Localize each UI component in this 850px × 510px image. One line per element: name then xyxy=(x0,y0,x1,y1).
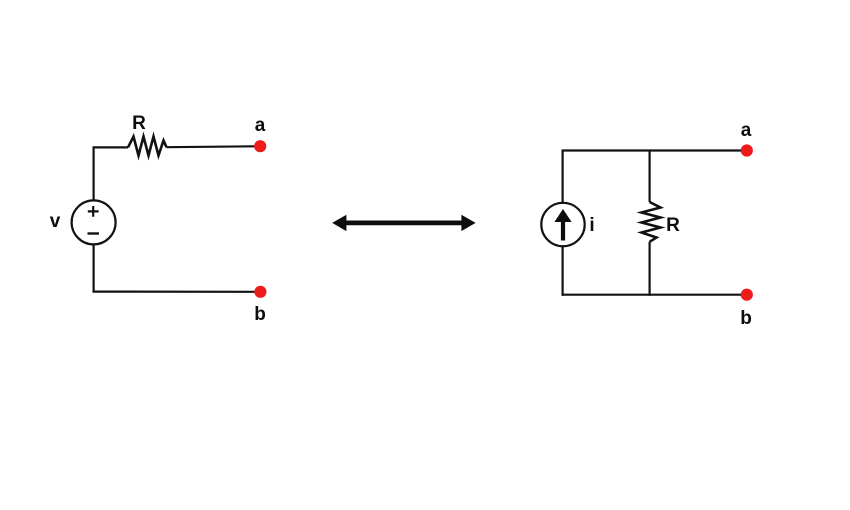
label b (left) xyxy=(254,304,266,325)
svg-text:a: a xyxy=(255,115,266,136)
wire: bottom horizontal to node b xyxy=(562,294,744,296)
resistor R (horizontal zigzag) xyxy=(128,137,167,156)
svg-text:a: a xyxy=(741,120,752,141)
wire: top horizontal to resistor xyxy=(93,146,129,148)
double-headed arrow xyxy=(332,215,475,231)
svg-text:v: v xyxy=(50,211,61,232)
svg-text:b: b xyxy=(740,308,752,329)
current source i xyxy=(541,203,584,246)
voltage source v xyxy=(72,200,116,244)
label v xyxy=(50,211,61,232)
node a (right circuit terminal, red dot) xyxy=(741,144,753,156)
wire: resistor branch top vertical xyxy=(648,150,650,203)
node b (right circuit terminal, red dot) xyxy=(741,289,753,301)
wire: resistor to node a xyxy=(167,145,258,148)
value label R (right) xyxy=(666,215,680,236)
svg-text:R: R xyxy=(132,113,146,134)
svg-text:R: R xyxy=(666,215,680,236)
svg-text:b: b xyxy=(254,304,266,325)
label i xyxy=(589,215,594,236)
resistor R (vertical zigzag) xyxy=(642,202,661,242)
label a (left) xyxy=(255,115,266,136)
wire: left vertical top segment xyxy=(92,147,94,200)
node b (left circuit terminal, red dot) xyxy=(254,286,266,298)
wire: current source bottom vertical xyxy=(561,246,563,296)
svg-text:i: i xyxy=(589,215,594,236)
node a (left circuit terminal, red dot) xyxy=(254,140,266,152)
wire: resistor branch bottom vertical xyxy=(648,242,650,296)
label b (right) xyxy=(740,308,752,329)
label a (right) xyxy=(741,120,752,141)
wire: left vertical top segment xyxy=(561,151,563,204)
value label R xyxy=(132,113,146,134)
wire: left vertical bottom + bottom horizontal to node b xyxy=(94,244,257,291)
wire: top horizontal to node a xyxy=(562,149,744,151)
